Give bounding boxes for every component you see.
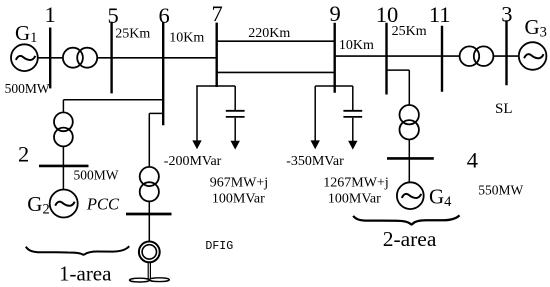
svg-text:10Km: 10Km (169, 31, 204, 46)
svg-text:25Km: 25Km (115, 27, 150, 42)
svg-text:25Km: 25Km (392, 24, 427, 39)
svg-text:G1: G1 (15, 21, 37, 46)
svg-text:10Km: 10Km (339, 38, 374, 53)
svg-text:500MW: 500MW (5, 81, 50, 96)
svg-text:5: 5 (108, 3, 119, 28)
svg-text:-200MVar: -200MVar (164, 154, 222, 169)
svg-text:100MVar: 100MVar (212, 191, 265, 206)
svg-text:G4: G4 (429, 184, 452, 210)
svg-text:967MW+j: 967MW+j (210, 175, 268, 190)
svg-text:G3: G3 (525, 15, 547, 41)
svg-text:G2: G2 (27, 192, 49, 218)
svg-text:4: 4 (467, 148, 478, 173)
svg-text:1: 1 (45, 2, 56, 27)
svg-text:DFIG: DFIG (205, 240, 233, 253)
svg-text:-350MVar: -350MVar (286, 154, 344, 169)
svg-text:6: 6 (159, 3, 170, 28)
svg-text:550MW: 550MW (478, 183, 523, 198)
svg-text:3: 3 (501, 2, 512, 27)
svg-text:1-area: 1-area (59, 261, 112, 285)
svg-text:PCC: PCC (86, 195, 120, 214)
svg-text:2-area: 2-area (383, 227, 437, 251)
svg-text:2: 2 (18, 141, 29, 166)
svg-text:100MVar: 100MVar (328, 191, 381, 206)
svg-text:SL: SL (495, 101, 513, 117)
svg-text:7: 7 (212, 1, 223, 26)
svg-text:500MW: 500MW (74, 168, 119, 183)
svg-text:9: 9 (330, 1, 341, 26)
svg-text:1267MW+j: 1267MW+j (323, 175, 388, 190)
svg-text:11: 11 (429, 2, 451, 27)
svg-text:220Km: 220Km (248, 26, 290, 41)
